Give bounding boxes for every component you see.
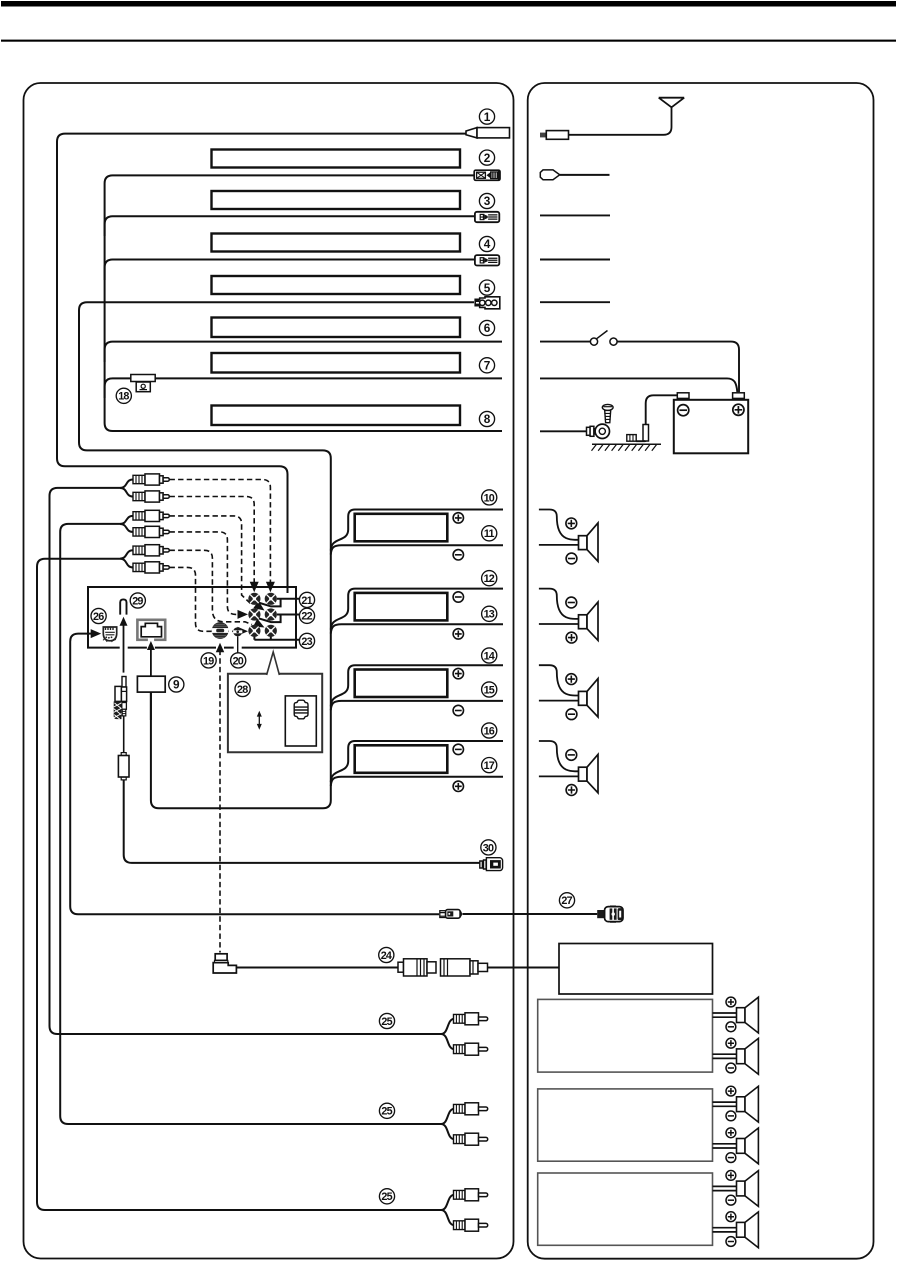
label 18 [116, 388, 131, 403]
svg-text:12: 12 [484, 573, 495, 585]
fuse tag row2 [540, 170, 559, 180]
aux jack 20 [233, 627, 242, 636]
speaker [539, 589, 579, 624]
label 10 [482, 490, 497, 505]
amp speaker [713, 1228, 737, 1232]
svg-text:8: 8 [484, 412, 491, 426]
label 13 [482, 606, 497, 621]
svg-text:13: 13 [484, 609, 495, 621]
amplifier box 3 [538, 1173, 713, 1245]
dashed lead plug2 -> jack 21L [170, 497, 255, 584]
RCA plug [133, 491, 169, 502]
speaker [539, 510, 579, 545]
amp speaker [713, 1054, 737, 1058]
wire row3 branch [105, 216, 475, 236]
jack 21 bracket line [258, 599, 300, 607]
label 22 [299, 608, 314, 623]
amp speaker [713, 1102, 737, 1106]
label 4 [479, 236, 494, 251]
label 27 [559, 893, 574, 908]
jack 20 label line [237, 636, 239, 652]
svg-text:9: 9 [173, 678, 180, 692]
label box row 3 [212, 191, 461, 209]
wire row7 to battery [540, 378, 737, 392]
RCA cord pair 2 leads [60, 516, 441, 1124]
wire 26/27: remote cable [70, 634, 439, 915]
svg-text:25: 25 [381, 1191, 392, 1203]
RCA plug [454, 1013, 488, 1025]
label 7 [479, 358, 494, 373]
antenna adapter plug [115, 677, 127, 716]
wire row4 right [540, 259, 610, 261]
label 6 [479, 320, 494, 335]
label box row 8 [212, 406, 461, 426]
ring terminal row8 [540, 430, 587, 432]
antenna socket 29 [120, 599, 126, 614]
jack 22 bracket line [258, 615, 300, 623]
left panel frame [24, 83, 514, 1259]
ground hatching [592, 444, 662, 451]
bullet connector 5 [475, 297, 500, 309]
svg-text:29: 29 [132, 595, 143, 607]
label 23 [299, 633, 314, 648]
label 15 [482, 682, 497, 697]
svg-text:5: 5 [484, 281, 491, 295]
svg-text:26: 26 [93, 611, 104, 623]
RCA cord 25 split [441, 1195, 455, 1225]
header rule line [1, 40, 896, 42]
label 8 [479, 411, 494, 426]
label 25 [379, 1013, 394, 1028]
svg-text:14: 14 [484, 650, 495, 662]
svg-text:19: 19 [203, 655, 214, 667]
label 28 [235, 681, 250, 696]
speaker label box 10/11 [355, 514, 448, 542]
callout wedge 28 [267, 652, 280, 675]
inline connector 18 [131, 375, 155, 392]
label 26 [91, 608, 106, 623]
RCA jack 21 L/R [248, 593, 260, 605]
ignition switch + wire to battery [540, 342, 739, 392]
amp speaker [713, 1013, 737, 1017]
dashed target plug 24 (L-plug) [213, 954, 236, 973]
polarity sign bottom 13 [453, 629, 463, 639]
RCA plug [133, 526, 169, 537]
battery plus terminal [733, 404, 744, 415]
dashed lead plug6 -> jack 23L [170, 567, 239, 631]
wire from fuse box 9 (continues to bundle loop) [150, 692, 152, 720]
main harness jack (to fuse box 9) [137, 620, 165, 642]
svg-text:21: 21 [301, 595, 312, 607]
wire 24 right into box [488, 967, 560, 969]
speaker leads group 14/15 [331, 665, 503, 706]
wire 1: antenna jack lead (row1 -> down left -> to RCA box top) [57, 134, 466, 593]
rear panel connector box [88, 587, 296, 648]
amplifier box 2 [538, 1089, 713, 1161]
amp speaker [713, 1186, 737, 1190]
dashed lead: changer jack 19 -> antenna plug 24 [219, 650, 221, 953]
spade connector [475, 255, 499, 265]
svg-text:30: 30 [483, 842, 494, 854]
label 19 [201, 653, 216, 668]
svg-text:4: 4 [484, 237, 491, 251]
RCA plug [133, 562, 169, 573]
amp speaker [713, 1144, 737, 1148]
fuse holder box [285, 696, 316, 746]
battery minus terminal [678, 405, 689, 416]
svg-text:25: 25 [381, 1016, 392, 1028]
svg-text:11: 11 [484, 528, 495, 540]
barrel connector 24b [441, 959, 488, 976]
label 11 [482, 526, 497, 541]
label 1 [479, 109, 494, 124]
wire row2 right [560, 174, 610, 176]
wire 24 left [236, 967, 398, 969]
wire row5 right [540, 301, 610, 303]
antenna symbol [569, 98, 685, 135]
updown arrow [258, 714, 260, 728]
svg-text:23: 23 [301, 636, 312, 648]
fuse detail box 28 [228, 674, 322, 753]
barrel connector 24a [398, 959, 436, 976]
speaker leads group 12/13 [331, 589, 503, 630]
RCA cord pair 1 leads [50, 480, 442, 1035]
right panel frame [528, 83, 874, 1259]
svg-text:18: 18 [118, 391, 129, 403]
svg-text:15: 15 [484, 684, 495, 696]
svg-text:27: 27 [561, 895, 572, 907]
connector 27 small [440, 910, 462, 919]
svg-text:17: 17 [484, 760, 495, 772]
connector 2 [474, 170, 500, 180]
label 2 [479, 150, 494, 165]
wire row5 -> speaker bundle loop -> harness lead to fuse box 9 [79, 302, 474, 808]
RCA plug [133, 510, 169, 521]
wire to connector 30 [124, 780, 480, 863]
antenna jack 1 [466, 128, 510, 138]
amplifier box 1 [538, 999, 713, 1072]
adapter hatched sleeve [114, 701, 122, 719]
wire row7 branch [105, 378, 502, 398]
dashed lead plug1 -> jack 21R [170, 480, 271, 584]
label box row 6 [212, 318, 461, 338]
polarity sign top 12 [453, 592, 463, 602]
label box row 7 [212, 353, 461, 373]
polarity sign bottom 17 [453, 781, 463, 791]
RCA jack 23 L/R [248, 625, 260, 637]
label 16 [482, 723, 497, 738]
connector 27 plug [597, 905, 623, 923]
svg-text:28: 28 [237, 684, 248, 696]
RCA plug [454, 1219, 488, 1231]
polarity sign bottom 11 [453, 550, 463, 560]
label 29 [130, 593, 145, 608]
RCA plug [133, 545, 169, 556]
label 30 [481, 840, 496, 855]
wire 27 to plug [462, 913, 597, 915]
svg-text:16: 16 [484, 725, 495, 737]
ground screw [602, 404, 613, 422]
polarity sign bottom 15 [453, 705, 463, 715]
polarity sign top 16 [453, 744, 463, 754]
label 9 [169, 677, 184, 692]
wire row3 right [540, 214, 610, 216]
tuner box (24 target) [559, 944, 713, 995]
speaker [539, 741, 579, 776]
steering remote jack 26 [103, 627, 117, 642]
connector 30 [480, 858, 503, 871]
wire row4 branch [105, 260, 475, 281]
label 3 [479, 193, 494, 208]
label box row 4 [212, 234, 461, 252]
battery ground lead [646, 395, 678, 426]
wire row6 branch [105, 342, 502, 362]
label box row 2 [212, 150, 461, 168]
RCA cord pair 3 leads [37, 550, 441, 1210]
svg-text:1: 1 [484, 110, 491, 124]
RCA plug [133, 474, 169, 485]
svg-text:24: 24 [381, 950, 392, 962]
arrow into jack 19 [216, 643, 225, 653]
label 14 [482, 648, 497, 663]
RCA plug [454, 1103, 488, 1115]
svg-text:25: 25 [381, 1106, 392, 1118]
RCA plug [454, 1133, 488, 1145]
RCA cord 25 split [441, 1019, 455, 1049]
polarity sign top 10 [453, 513, 463, 523]
RCA jack 22 L/R [248, 608, 260, 620]
changer DIN jack 19 [212, 622, 229, 639]
svg-text:3: 3 [484, 194, 491, 208]
jack 23 bracket line [254, 635, 300, 640]
speaker [539, 665, 579, 700]
chassis clamp [627, 435, 636, 442]
label 20 [231, 653, 246, 668]
svg-text:10: 10 [484, 492, 495, 504]
fuse box 9 [137, 676, 165, 692]
label 25 [379, 1189, 394, 1204]
svg-text:20: 20 [233, 655, 244, 667]
RCA plug [454, 1043, 488, 1055]
svg-text:7: 7 [484, 359, 491, 373]
adapter cable wire [123, 716, 125, 753]
speaker label box 16/17 [355, 745, 448, 773]
label 24 [379, 947, 394, 962]
fuse icon [294, 700, 308, 719]
antenna plug [540, 131, 569, 140]
svg-text:2: 2 [484, 151, 491, 165]
label 12 [482, 571, 497, 586]
polarity sign top 14 [453, 668, 463, 678]
dashed lead plug5 -> jack 23R [170, 550, 253, 624]
label 21 [299, 592, 314, 607]
label box row 5 [212, 276, 461, 294]
speaker label box 12/13 [355, 593, 448, 621]
speaker leads group 16/17 [331, 741, 503, 782]
svg-text:22: 22 [301, 611, 312, 623]
wire bus: row2 lead down to row8 lead [105, 175, 502, 431]
svg-text:6: 6 [484, 321, 491, 335]
ferrite core [118, 753, 129, 780]
arrow into harness jack [150, 647, 152, 677]
arrow into socket 29 [123, 623, 125, 673]
spade connector [475, 212, 499, 222]
label 25 [379, 1103, 394, 1118]
speaker leads group 10/11 [331, 510, 503, 551]
dashed lead plug3 -> jack 22R [170, 516, 251, 604]
label 5 [479, 280, 494, 295]
battery [674, 393, 748, 454]
RCA plug [454, 1189, 488, 1201]
header top bar [1, 1, 896, 7]
speaker label box 14/15 [355, 670, 448, 698]
dashed lead plug4 -> jack 22L [170, 532, 239, 615]
gaps in box bottom edge at wire crossings [120, 645, 242, 650]
RCA cord 25 split [441, 1109, 455, 1139]
label 17 [482, 758, 497, 773]
